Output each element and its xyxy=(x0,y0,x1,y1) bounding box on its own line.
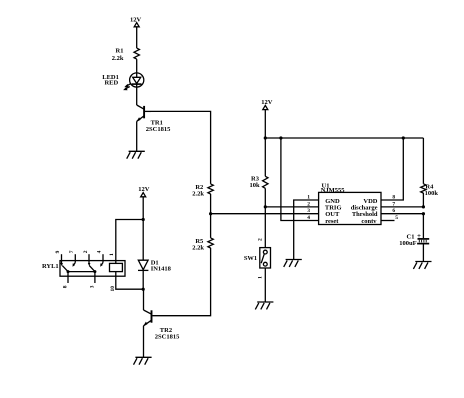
svg-text:10: 10 xyxy=(110,286,116,292)
svg-text:5: 5 xyxy=(395,215,398,221)
wire rail corner to R4 xyxy=(422,138,424,184)
svg-text:3: 3 xyxy=(307,208,310,214)
power 12V (middle, net V2) xyxy=(138,186,150,197)
resistor R3 xyxy=(249,175,268,189)
wire R2 to OUT node xyxy=(210,194,212,214)
relay pin 8 xyxy=(67,272,69,283)
svg-text:7: 7 xyxy=(69,250,75,253)
node OUT junction xyxy=(209,212,212,215)
svg-text:9: 9 xyxy=(55,250,61,253)
wire relay pin10 to node B xyxy=(116,272,143,290)
svg-text:8: 8 xyxy=(392,194,395,200)
resistor R5 xyxy=(192,238,213,252)
wire rail to R3 xyxy=(264,138,266,176)
wire TR1 base to R2 xyxy=(151,111,211,183)
svg-text:12V: 12V xyxy=(138,186,150,193)
wire rail to U1 pin8 xyxy=(381,138,403,200)
wire TRIG node to SW1 xyxy=(264,207,266,248)
wire R3 to TRIG node xyxy=(264,188,266,207)
node TRIG xyxy=(264,205,267,208)
node discharge xyxy=(422,205,425,208)
svg-text:reset: reset xyxy=(325,218,339,225)
node A (D1 cathode / relay coil top) xyxy=(142,218,145,221)
relay pin 9 xyxy=(61,254,63,264)
wire threshold node to C1 xyxy=(422,214,424,239)
svg-text:100uF: 100uF xyxy=(399,240,416,247)
svg-text:2SC1815: 2SC1815 xyxy=(146,126,171,133)
wire OUT node to U1 pin3 xyxy=(211,213,319,215)
wire U1 pin7 (discharge) to R4 xyxy=(381,206,423,208)
svg-text:12V: 12V xyxy=(261,99,273,106)
svg-text:1: 1 xyxy=(109,253,115,256)
svg-text:2: 2 xyxy=(258,238,264,241)
ground (under TR2) xyxy=(134,357,152,364)
wire R4 to discharge node xyxy=(422,193,424,207)
svg-text:IN1418: IN1418 xyxy=(151,265,172,272)
svg-text:10k: 10k xyxy=(249,182,260,189)
svg-text:SW1: SW1 xyxy=(244,255,257,262)
resistor R4 xyxy=(421,184,439,198)
ground (U1 pin1) xyxy=(284,260,302,267)
resistor R2 xyxy=(192,184,213,198)
relay pin 2 xyxy=(88,254,90,264)
wire 12V V3 down to rail xyxy=(264,110,266,138)
node B (TR2 collector / relay coil bottom) xyxy=(142,288,145,291)
wire LED1 to TR1 collector xyxy=(136,87,138,105)
wire 12V V2 to node A xyxy=(142,197,144,220)
diode D1 IN1418 xyxy=(138,259,172,272)
node rail-left xyxy=(264,136,267,139)
node rail-vdd xyxy=(402,136,405,139)
wire R1 to LED1 xyxy=(136,59,138,73)
power 12V (top left, net V1) xyxy=(130,16,142,26)
relay contact a common xyxy=(68,271,95,273)
svg-text:4: 4 xyxy=(97,250,103,253)
svg-text:RED: RED xyxy=(104,80,118,87)
wire node A to relay coil pin1 xyxy=(116,220,143,264)
relay coil xyxy=(110,263,123,271)
wire TR2 emitter to ground xyxy=(143,326,145,358)
transistor TR2 2SC1815 xyxy=(143,310,180,340)
wire TR2 collector to node B xyxy=(143,289,145,310)
transistor TR1 2SC1815 xyxy=(136,105,171,133)
IC U1 NJM555 (555 timer) xyxy=(307,182,398,225)
node rail-reset xyxy=(279,136,282,139)
wire TR1 emitter to ground xyxy=(136,121,138,151)
resistor R1 xyxy=(112,48,140,63)
switch SW1 xyxy=(244,238,271,279)
svg-text:12V: 12V xyxy=(130,16,142,23)
relay pin 4 xyxy=(102,254,104,262)
svg-text:RYL1: RYL1 xyxy=(42,263,59,270)
ground (under SW1) xyxy=(255,302,273,309)
wire U1 pin5 (contv) stub xyxy=(381,220,395,222)
wire D1 to node B xyxy=(142,270,144,289)
svg-text:2.2k: 2.2k xyxy=(112,55,124,62)
svg-text:8: 8 xyxy=(63,285,69,288)
svg-text:1: 1 xyxy=(258,276,264,279)
svg-text:3: 3 xyxy=(89,285,95,288)
ground (under C1) xyxy=(413,262,431,269)
wire 12V to R1 xyxy=(136,27,138,48)
svg-text:NJM555: NJM555 xyxy=(321,187,346,194)
ground (under TR1) xyxy=(127,151,145,158)
wire C1 to ground xyxy=(422,244,424,262)
svg-text:2: 2 xyxy=(307,201,310,207)
svg-text:2: 2 xyxy=(83,250,89,253)
wire U1 pin1 (GND) to ground xyxy=(294,200,319,260)
relay pin 7 xyxy=(74,254,76,262)
svg-text:100k: 100k xyxy=(425,190,439,197)
svg-text:2.2k: 2.2k xyxy=(192,244,204,251)
power 12V (right, net V3) xyxy=(261,99,273,110)
wire U1 pin6 (threshold) to R4 xyxy=(381,213,423,215)
svg-text:contv: contv xyxy=(361,218,377,225)
svg-text:R1: R1 xyxy=(116,48,124,55)
capacitor C1 100uF xyxy=(399,232,429,247)
svg-text:2SC1815: 2SC1815 xyxy=(155,333,180,340)
wire SW1 to ground xyxy=(264,268,266,302)
svg-text:2.2k: 2.2k xyxy=(192,190,204,197)
relay pin 3 xyxy=(94,272,96,283)
wire reset pull-up (rail to U1 pin4) xyxy=(281,138,319,221)
wire TRIG node to U1 pin2 xyxy=(265,206,318,208)
LED LED1 RED xyxy=(102,73,144,90)
wire OUT node to R5 xyxy=(210,214,212,238)
node threshold xyxy=(422,212,425,215)
wire R5 to TR2 base xyxy=(152,248,210,316)
wire node A to D1 xyxy=(142,220,144,261)
relay contact b common xyxy=(93,270,96,273)
svg-text:4: 4 xyxy=(307,215,310,221)
wire VDD rail xyxy=(265,137,423,139)
relay RYL1 xyxy=(42,250,125,291)
